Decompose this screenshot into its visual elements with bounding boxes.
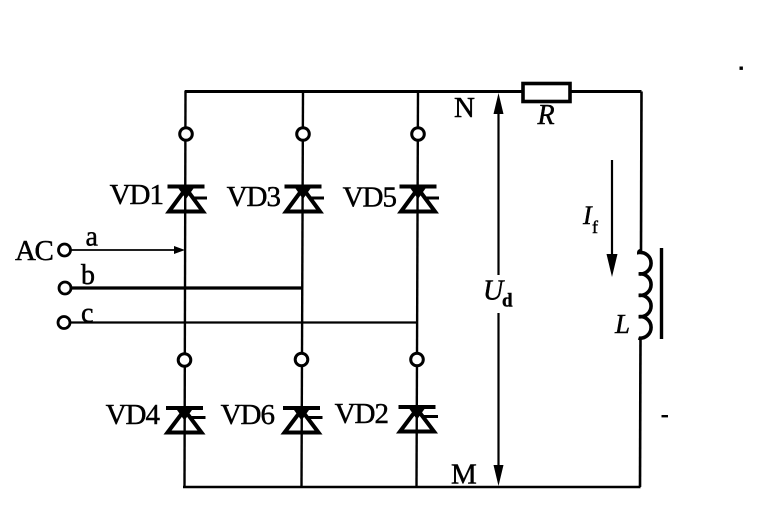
svg-text:VD4: VD4	[106, 399, 161, 431]
diode VD1 symbol	[168, 185, 208, 212]
terminal circle above VD4	[178, 354, 191, 367]
svg-text:b: b	[81, 260, 95, 291]
terminal a circle	[59, 244, 71, 256]
inductor L coil	[639, 251, 651, 339]
wire phase b	[72, 286, 303, 289]
wire right side below inductor	[639, 337, 642, 487]
wire top rail (node N rail)	[185, 90, 642, 93]
svg-text:R: R	[537, 100, 555, 131]
diode VD4 symbol	[166, 406, 206, 433]
svg-text:N: N	[454, 92, 475, 124]
svg-text:VD2: VD2	[335, 398, 388, 430]
svg-text:VD3: VD3	[227, 181, 281, 213]
arrow Ud (double headed)	[494, 93, 504, 486]
label Ud	[483, 276, 513, 312]
diode VD6 symbol	[283, 406, 323, 433]
wire phase c	[71, 321, 417, 323]
svg-text:VD5: VD5	[343, 182, 397, 214]
inductor core bar	[660, 248, 663, 339]
svg-text:L: L	[614, 309, 630, 339]
svg-text:M: M	[451, 459, 477, 491]
arrow If	[607, 160, 618, 277]
svg-text:f: f	[592, 217, 598, 237]
terminal c circle	[58, 317, 70, 329]
terminal circle above VD3	[297, 128, 310, 141]
svg-text:AC: AC	[15, 235, 52, 267]
svg-text:c: c	[81, 298, 93, 329]
wire bottom rail (node M rail)	[183, 486, 641, 489]
svg-text:a: a	[86, 222, 99, 253]
wire phase a	[72, 249, 181, 251]
diode VD3 symbol	[285, 185, 325, 212]
speck near inductor	[662, 415, 669, 417]
diode VD5 symbol	[400, 185, 440, 212]
wire middle branch (VD3/VD6 column)	[302, 91, 304, 488]
wire right side load loop	[640, 92, 643, 253]
terminal b circle	[59, 282, 71, 294]
arrowhead phase a	[174, 246, 185, 254]
wire left branch (VD1/VD4 column)	[185, 91, 186, 488]
speck top right	[740, 67, 743, 70]
label If	[582, 201, 598, 237]
terminal circle above VD6	[295, 353, 308, 366]
svg-text:VD6: VD6	[221, 399, 275, 431]
terminal circle above VD1	[180, 128, 193, 141]
resistor R	[523, 84, 570, 102]
terminal circle above VD5	[412, 128, 425, 141]
terminal circle above VD2	[411, 353, 424, 366]
wire right branch (VD5/VD2 column)	[417, 91, 419, 488]
diode VD2 symbol	[399, 405, 439, 432]
svg-text:VD1: VD1	[110, 179, 163, 211]
svg-text:d: d	[502, 291, 513, 312]
